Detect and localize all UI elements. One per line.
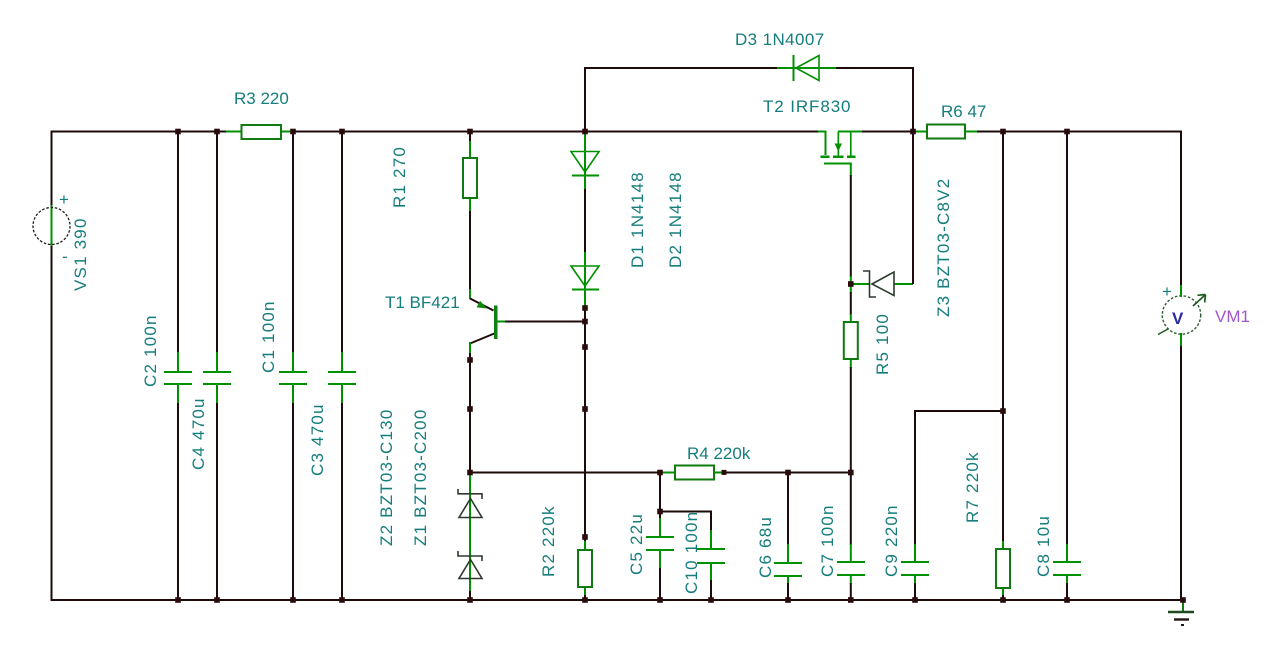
svg-text:+: + [59,190,69,209]
wire C9 lead top [914,544,916,562]
wire R1 column top [469,132,471,142]
wire T2 source lead [850,164,852,177]
svg-text:R1 270: R1 270 [390,146,409,208]
diode D1 [571,152,599,176]
wire C1 column lower [292,403,294,600]
wire R5 top lead [850,314,852,322]
diode D3 [794,55,820,81]
wire R7 column upper [1002,132,1004,543]
wire C10 lead top [710,530,712,549]
wire Z3 node lead [850,276,852,293]
node dots bottom rail [175,597,1186,603]
wire T2 gate lead [818,132,826,156]
wire C8 lead top [1066,544,1068,562]
node dots top rail [175,129,1070,135]
source VS1 [33,190,70,266]
wire R7 to rail [1002,595,1004,600]
resistor R5 [844,322,858,359]
wire Z3 left lead [851,283,869,285]
wire top rail far right [977,131,1181,133]
capacitor C6 [774,563,802,576]
capacitor C2 [164,372,192,384]
wire VM1 column upper [1180,131,1182,297]
wire zener column to rail [469,591,471,600]
voltmeter VM1 [1158,282,1206,346]
wire top rail right [862,131,913,133]
wire C2 lead bottom [177,384,179,404]
wire C9 tap [915,410,1003,412]
wire Z3 riser [912,132,914,285]
svg-text:R3 220: R3 220 [234,89,289,108]
capacitor C4 [203,372,231,384]
wire C8 lead bottom [1066,575,1068,584]
wire top rail mid [293,131,818,133]
svg-text:-: - [62,247,68,266]
wire C3 column lower [341,403,343,600]
wire R6 left lead [913,131,927,133]
wire C6 column lower [787,583,789,600]
wire C7 lead top [850,544,852,562]
wire R4 left lead [660,472,675,474]
wire C4 lead bottom [216,384,218,404]
wire C3 lead top [341,352,343,372]
wire C3 lead bottom [341,384,343,404]
svg-text:D3 1N4007: D3 1N4007 [735,30,825,49]
svg-text:C5 22u: C5 22u [627,513,646,575]
svg-text:C6 68u: C6 68u [756,516,775,578]
resistor R1 [463,158,477,198]
wire R2 top lead [584,541,586,550]
wire C8 column upper [1066,132,1068,546]
wire C1 column upper [292,132,294,354]
svg-text:VM1: VM1 [1215,307,1250,326]
wire C3 column upper [341,132,343,354]
wire R6 right lead [965,131,978,133]
node dots collector column [467,357,473,475]
wire emitter green corner [469,289,471,299]
wire R4 right lead [714,472,725,474]
resistor R7 [996,549,1010,588]
svg-text:R7 220k: R7 220k [963,451,982,523]
svg-text:R6 47: R6 47 [941,102,986,121]
svg-text:Z1 BZT03-C200: Z1 BZT03-C200 [411,409,430,546]
svg-text:Z3 BZT03-C8V2: Z3 BZT03-C8V2 [934,178,953,317]
wire R2 to rail [584,595,586,600]
wire top rail left [51,131,233,133]
wire C2 column upper [177,132,179,354]
resistor R4 [675,466,714,480]
wire R2 bottom lead [584,587,586,596]
capacitor C9 [901,562,929,575]
wire R3 right lead [281,131,294,133]
svg-text:C9 220n: C9 220n [882,504,901,577]
wire T1 collector diagonal [470,333,496,344]
svg-text:VS1 390: VS1 390 [71,217,90,291]
wire R5 bottom lead [850,359,852,368]
wire T1 base stub [498,321,507,323]
wire C5 column upper [659,473,661,520]
wire D1-D2 link [584,189,586,253]
wire C6 lead bottom [787,576,789,584]
wire bottom rail [51,599,1184,601]
wire mid rail left [470,472,667,474]
wire T1 emitter diagonal [470,299,494,311]
capacitor C1 [279,372,307,384]
wire C1 lead bottom [292,384,294,404]
wire collector column [469,353,471,473]
wire R7 top lead [1002,541,1004,549]
svg-text:C2 100n: C2 100n [141,314,160,387]
wire D1 top lead [584,132,586,177]
wire C5 lead top [659,518,661,537]
wire emitter column [469,211,471,290]
wire C6 column upper [787,473,789,546]
wire C9 column lower [914,583,916,600]
svg-text:C10 100n: C10 100n [682,511,701,594]
svg-text:R4 220k: R4 220k [687,444,751,463]
capacitor C3 [328,372,356,384]
zener Z2 [458,489,482,518]
wire C5 column lower [659,568,661,600]
wire C9 lead bottom [914,575,916,584]
capacitor C8 [1053,562,1081,575]
svg-text:C7 100n: C7 100n [818,504,837,577]
svg-text:R5 100: R5 100 [873,313,892,375]
capacitor C7 [837,562,865,575]
wire R3 left lead [226,131,241,133]
wire D3 left lead [777,67,837,69]
zener Z3 [863,271,894,297]
wire base column [584,309,586,542]
node dots mid rail [657,281,1006,514]
wire C4 column upper [216,132,218,354]
svg-text:C8 10u: C8 10u [1034,515,1053,577]
svg-text:D2 1N4148: D2 1N4148 [666,171,685,268]
node dots base column [582,305,588,540]
wire C8 column lower [1066,583,1068,600]
wire C10 lead bottom [710,563,712,581]
wire R1 top lead [469,140,471,158]
wire D3 riser left [585,68,777,132]
wire C2 lead top [177,352,179,372]
svg-text:C3 470u: C3 470u [308,403,327,476]
wire VS1 lead [51,205,53,247]
wire R7 bottom lead [1002,588,1004,596]
wire C7 lead bottom [850,575,852,584]
wire C4 column lower [216,403,218,600]
svg-text:C1 100n: C1 100n [259,300,278,373]
capacitor C10 [697,549,725,563]
wire C5 lead bottom [659,550,661,569]
wire D1-D2 link upper [584,176,586,190]
wire source column 2 [850,292,852,315]
wire C7 column lower [850,583,852,600]
wire R1 bottom lead [469,198,471,212]
wire left column upper [51,131,53,207]
wire C7 column upper [850,473,852,546]
wire C10 tap [660,512,711,532]
svg-text:C4 470u: C4 470u [189,397,208,470]
transistor T1 [477,301,498,339]
wire C6 lead top [787,544,789,563]
wire C10 column lower [710,580,712,600]
capacitor C5 [646,537,674,550]
wire R5 to mid rail [850,367,852,473]
wire T1 collector stub [469,342,471,354]
svg-text:V: V [1172,309,1184,328]
wire C9 column upper [914,410,916,545]
zener Z1 [458,551,482,579]
svg-text:R2 220k: R2 220k [539,505,558,577]
resistor R3 [242,125,282,139]
wire C2 column lower [177,403,179,600]
svg-text:T1 BF421: T1 BF421 [385,293,460,312]
ground [1168,600,1194,625]
wire D3 riser right [836,68,913,132]
wire C1 lead top [292,352,294,372]
wire Z3 right lead [894,283,913,285]
resistor R6 [927,125,965,139]
svg-text:T2 IRF830: T2 IRF830 [763,97,851,116]
wire zener column [469,473,471,593]
wire VM1 column lower [1180,334,1182,600]
wire mid rail right [724,472,851,474]
wire T1 base to node [505,321,585,323]
wire C4 lead top [216,352,218,372]
resistor R2 [578,550,592,587]
wire D2 top lead [584,252,586,290]
wire T2 source column [850,175,852,277]
diode D2 [571,266,599,290]
mosfet T2 [821,132,856,164]
svg-text:+: + [1162,282,1172,301]
svg-text:Z2 BZT03-C130: Z2 BZT03-C130 [377,409,396,546]
wire T2 drain top [838,131,862,133]
svg-text:D1 1N4148: D1 1N4148 [628,171,647,268]
wire left column lower [51,246,53,601]
wire D2 bottom lead [584,290,586,310]
